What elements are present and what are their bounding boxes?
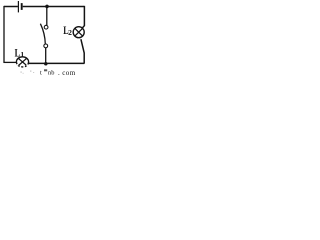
lamp L1 cross [18,58,27,65]
battery cell short plate (-) [21,3,23,10]
svg-text:nb: nb [48,70,54,76]
svg-text:t: t [40,70,42,76]
battery cell long plate (+) [17,1,19,12]
wire bottom horizontal from L1 to right corner [28,62,84,64]
switch S blade (open) [40,24,45,44]
watermark fragments [21,69,76,77]
label L1 [15,47,25,60]
label L2 [63,25,72,38]
junction dot top of switch branch [45,5,49,9]
wire right vertical lower [81,39,84,63]
wire bottom-left horizontal to lamp L1 [3,61,16,63]
lamp L2 circle [73,27,84,38]
wire top-left horizontal segment [4,6,18,8]
wire switch upper vertical [46,7,48,26]
lamp L1 dotted bottom arc gaps [17,64,28,68]
wire switch lower vertical [45,48,47,64]
lamp L1 circle [16,57,28,67]
wire right vertical upper [82,6,84,28]
junction dot bottom of switch branch [44,62,48,65]
svg-text:. com: . com [58,69,76,76]
lamp L2 cross [75,28,83,36]
switch S top terminal ring [44,25,48,29]
wire left vertical side [3,6,5,63]
svg-text:2: 2 [68,28,72,37]
wire top horizontal from battery to right corner [23,6,85,8]
switch S bottom terminal ring [44,44,48,48]
svg-text:1: 1 [20,50,24,59]
